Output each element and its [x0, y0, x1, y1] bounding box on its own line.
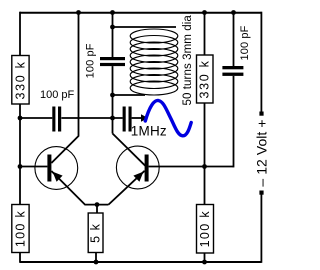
node junction left cap [18, 116, 23, 121]
blue sine wave [145, 100, 191, 135]
wire left branch middle [19, 104, 21, 205]
wire coupling row segment 2 [61, 117, 122, 119]
svg-text:100 k: 100 k [198, 210, 212, 247]
wire right branch upper [204, 12, 206, 55]
wire left branch lower [19, 253, 21, 263]
terminal square plus [259, 191, 263, 195]
wire right cap branch top [233, 12, 235, 66]
node junction tank bottom wire [110, 116, 115, 121]
capacitor C4 output plates [123, 107, 126, 132]
output arrowhead [141, 114, 148, 122]
wire tank branch lower [112, 66, 114, 133]
transistor Q1 base bar [47, 155, 51, 182]
svg-text:330 k: 330 k [13, 60, 27, 99]
svg-text:50 turns 3mm dia: 50 turns 3mm dia [182, 15, 194, 106]
resistor R5 5k [88, 213, 103, 253]
node junction right rail [202, 260, 207, 265]
transistor Q2 base bar [145, 155, 149, 182]
wire tank branch top [112, 12, 114, 57]
wire Q2 emitter [109, 171, 145, 205]
wire coil top lead [113, 26, 177, 28]
transistor Q2 circle [116, 146, 159, 189]
svg-text:1MHz: 1MHz [131, 124, 167, 139]
wire coupling row segment 1 [20, 117, 52, 119]
resistor R1 330k [12, 56, 29, 105]
capacitor C3 plates [222, 66, 243, 69]
node junction coil top [110, 25, 115, 30]
inductor L1 coil [130, 29, 178, 95]
wire Q1 base lead [20, 166, 47, 168]
resistor R3 100k left [12, 205, 29, 253]
terminal square minus [259, 112, 263, 116]
svg-text:330 k: 330 k [198, 59, 212, 98]
wire right cap branch lower [233, 76, 235, 167]
node junction 5k rail [94, 260, 99, 265]
capacitor C1 plates [52, 107, 55, 132]
svg-text:– 12 Volt +: – 12 Volt + [254, 119, 270, 186]
wire left branch upper [19, 12, 21, 56]
capacitor C2 plates [100, 57, 125, 60]
resistor R4 100k right [197, 205, 214, 254]
transistor Q2 emitter arrow [133, 172, 143, 182]
svg-text:100 pF: 100 pF [40, 89, 75, 101]
node junction coil bottom [110, 93, 115, 98]
svg-text:100 pF: 100 pF [239, 25, 251, 60]
wire output stub [132, 117, 142, 119]
wire emitter to 5k [96, 205, 98, 213]
svg-text:5 k: 5 k [89, 223, 103, 243]
wire right branch lower [204, 253, 206, 263]
svg-text:100 k: 100 k [13, 210, 27, 247]
wire coil bottom lead [113, 94, 146, 96]
node junction right base [202, 164, 207, 169]
wire Q1 emitter [51, 171, 108, 205]
transistor Q1 emitter arrow [53, 172, 63, 182]
wire bottom rail [20, 261, 261, 263]
wire Q2 base lead [149, 166, 234, 168]
node junction emitters [95, 202, 100, 207]
wire 5k to rail [95, 253, 97, 263]
wire right collector diagonal [113, 134, 146, 166]
wire top rail [20, 12, 261, 14]
wire right supply top stub [260, 12, 262, 112]
wire right supply bottom stub [260, 193, 262, 263]
wire right branch middle [204, 103, 206, 205]
wire Q1 collector [51, 13, 78, 164]
resistor R2 330k right [197, 55, 214, 103]
node junction left base [18, 164, 23, 169]
node junction top rail dots [76, 10, 81, 15]
svg-text:100 pF: 100 pF [85, 43, 97, 78]
transistor Q1 circle [35, 147, 78, 190]
